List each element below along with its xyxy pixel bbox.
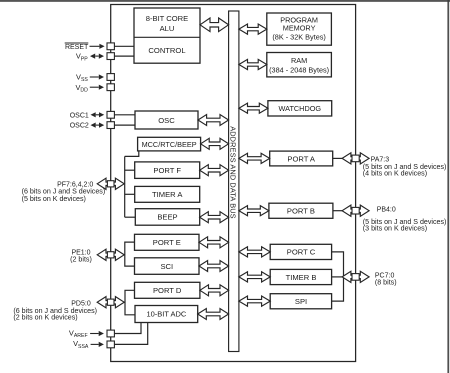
svg-text:PORT F: PORT F (153, 166, 181, 175)
svg-text:MCC/RTC/BEEP: MCC/RTC/BEEP (142, 140, 197, 149)
bus arrow OSC (198, 115, 229, 126)
block PORT D (135, 282, 200, 298)
bus arrow PORT D (200, 285, 229, 296)
block TIMER B (270, 269, 331, 284)
wire VPP to CONTROL (114, 55, 134, 57)
block SPI (270, 294, 331, 309)
block PROGRAM MEMORY (267, 13, 332, 45)
svg-text:PORT E: PORT E (153, 238, 181, 247)
figure right border (447, 0, 449, 373)
wire PE bracket (125, 242, 135, 266)
bus arrow PORT F (200, 165, 229, 176)
label VDD (75, 83, 88, 94)
bus arrow RAM (239, 59, 267, 69)
svg-text:(2 bits): (2 bits) (70, 256, 92, 264)
svg-text:WATCHDOG: WATCHDOG (279, 104, 322, 113)
block 8-bit core ALU / CONTROL U-core (134, 8, 200, 63)
pin OSC2 (107, 122, 114, 129)
block OSC (135, 111, 198, 129)
bus arrow ALU (200, 18, 229, 32)
svg-text:PORT C: PORT C (287, 248, 316, 257)
wire SPI to junction (332, 277, 344, 301)
arrow VSSA (91, 342, 104, 347)
wire TIMER B to pin (332, 276, 343, 278)
bus arrow SCI (199, 261, 229, 272)
wire PD bracket (125, 290, 135, 315)
wire PORT A to pin (333, 157, 343, 159)
wire PD pin to bracket (124, 301, 126, 303)
block 10-BIT ADC (135, 306, 198, 323)
pin PC7:0 (342, 271, 369, 282)
pin VDD (107, 84, 114, 91)
svg-text:10-BIT ADC: 10-BIT ADC (146, 310, 186, 319)
block WATCHDOG (268, 101, 332, 116)
svg-text:PORT B: PORT B (287, 207, 315, 216)
block RAM (267, 53, 332, 77)
block SCI (135, 258, 200, 275)
wire PF bracket (124, 156, 126, 217)
arrow OSC1 (91, 112, 105, 117)
bus arrow PORT E (199, 237, 229, 248)
block PORT A (270, 151, 333, 166)
svg-text:SPI: SPI (295, 297, 307, 306)
label PE1:0 (70, 250, 92, 264)
arrow VDD (90, 85, 104, 90)
label RESET (65, 43, 89, 51)
label OSC1 (70, 112, 89, 119)
pin PA7:3 (342, 153, 369, 164)
block MCC/RTC/BEEP (138, 137, 201, 151)
label PB4:0 (377, 207, 396, 214)
bus arrow PORT C (239, 247, 270, 257)
block PORT F (135, 162, 200, 179)
svg-text:ADDRESS AND DATA BUS: ADDRESS AND DATA BUS (229, 126, 238, 219)
pin VAREF (107, 330, 114, 337)
note PB bits (363, 218, 447, 232)
svg-text:PB4:0: PB4:0 (377, 207, 396, 214)
svg-text:PORT A: PORT A (287, 154, 316, 163)
pin OSC1 (107, 111, 114, 118)
wire PORT C to junction (332, 252, 344, 277)
svg-text:(2 bits on K devices): (2 bits on K devices) (13, 314, 77, 322)
svg-text:TIMER A: TIMER A (152, 190, 183, 199)
pin PF7:6,4,2:0 (97, 178, 124, 189)
bus arrow TIMER B (239, 272, 270, 282)
block TIMER A (135, 186, 200, 202)
top rule (0, 0, 450, 2)
label PD5:0 (71, 300, 91, 307)
label PF7:6,4,2:0 (57, 181, 93, 188)
wire VAREF to ADC (114, 323, 141, 334)
svg-text:CONTROL: CONTROL (148, 46, 185, 55)
svg-text:OSC2: OSC2 (70, 123, 89, 130)
address and data bus bar (229, 11, 239, 352)
svg-text:OSC: OSC (158, 116, 175, 125)
wire bracket to PORT F (125, 169, 135, 171)
arrow OSC2 (91, 123, 105, 128)
svg-text:(5 bits on K devices): (5 bits on K devices) (22, 195, 86, 203)
svg-text:(4 bits on K devices): (4 bits on K devices) (363, 169, 427, 177)
pin VSS (107, 74, 114, 81)
bus arrow MCC (201, 138, 229, 149)
bus arrow SPI (239, 296, 270, 306)
label PC7:0 (375, 272, 397, 286)
bus arrow BEEP (200, 212, 229, 223)
block BEEP (135, 209, 199, 226)
label VPP (76, 52, 88, 63)
wire OSC1 to OSC (114, 114, 135, 116)
wire PORT B to pin (333, 210, 342, 212)
wire VSSA to ADC (114, 323, 147, 345)
svg-text:(3 bits on K devices): (3 bits on K devices) (363, 224, 427, 232)
svg-text:VDD: VDD (75, 83, 88, 94)
label VSSA (73, 339, 89, 350)
block PORT C (270, 244, 331, 259)
svg-text:(8K - 32K Bytes): (8K - 32K Bytes) (272, 32, 326, 41)
svg-text:VAREF: VAREF (69, 328, 88, 339)
svg-text:BEEP: BEEP (157, 213, 177, 222)
wire bracket to TIMER A (125, 193, 135, 195)
pin PE1:0 (97, 249, 124, 260)
pin PB4:0 (342, 205, 369, 216)
wire RESET to CONTROL (114, 45, 134, 47)
note PF bits (22, 187, 106, 203)
bus arrow PORT A (239, 153, 270, 163)
arrow VSS (90, 74, 104, 79)
svg-text:ALU: ALU (160, 24, 175, 33)
pin RESET (107, 43, 114, 50)
note PA bits (363, 163, 447, 177)
block PORT E (135, 234, 200, 250)
label VAREF (69, 328, 88, 339)
label VSS (76, 73, 88, 84)
bus arrow ADC (198, 309, 229, 320)
pin VPP (107, 53, 114, 60)
bus arrow PROGRAM MEMORY (239, 24, 267, 34)
svg-text:RESET: RESET (65, 44, 89, 51)
svg-text:VSS: VSS (76, 73, 88, 84)
svg-text:RAM: RAM (291, 56, 307, 65)
svg-text:8-BIT CORE: 8-BIT CORE (146, 14, 188, 23)
label PA7:3 (371, 156, 390, 163)
svg-text:OSC1: OSC1 (70, 112, 89, 119)
arrow VPP (90, 54, 104, 59)
svg-text:TIMER B: TIMER B (286, 273, 317, 282)
wire MCC to PF bracket (125, 151, 139, 157)
wire bracket to BEEP (125, 216, 136, 218)
svg-text:PORT D: PORT D (153, 286, 182, 295)
pin VSSA (107, 341, 114, 348)
bus arrow PORT B (239, 206, 269, 216)
svg-text:MEMORY: MEMORY (283, 24, 316, 33)
label OSC2 (70, 123, 89, 130)
note PD bits (13, 307, 97, 322)
svg-text:VSSA: VSSA (73, 339, 89, 350)
MCU outer frame (111, 5, 356, 362)
svg-text:(8 bits): (8 bits) (375, 278, 397, 286)
arrow VAREF (90, 331, 104, 336)
wire PE pin to bracket (124, 254, 125, 256)
block PORT B (269, 203, 333, 218)
bus arrow WATCHDOG (239, 103, 268, 113)
wire OSC2 to OSC (114, 124, 135, 126)
arrow RESET (90, 44, 105, 49)
svg-text:SCI: SCI (160, 262, 173, 271)
svg-text:VPP: VPP (76, 52, 88, 63)
pin PD5:0 (97, 297, 124, 308)
svg-text:(384 - 2048 Bytes): (384 - 2048 Bytes) (269, 66, 329, 75)
